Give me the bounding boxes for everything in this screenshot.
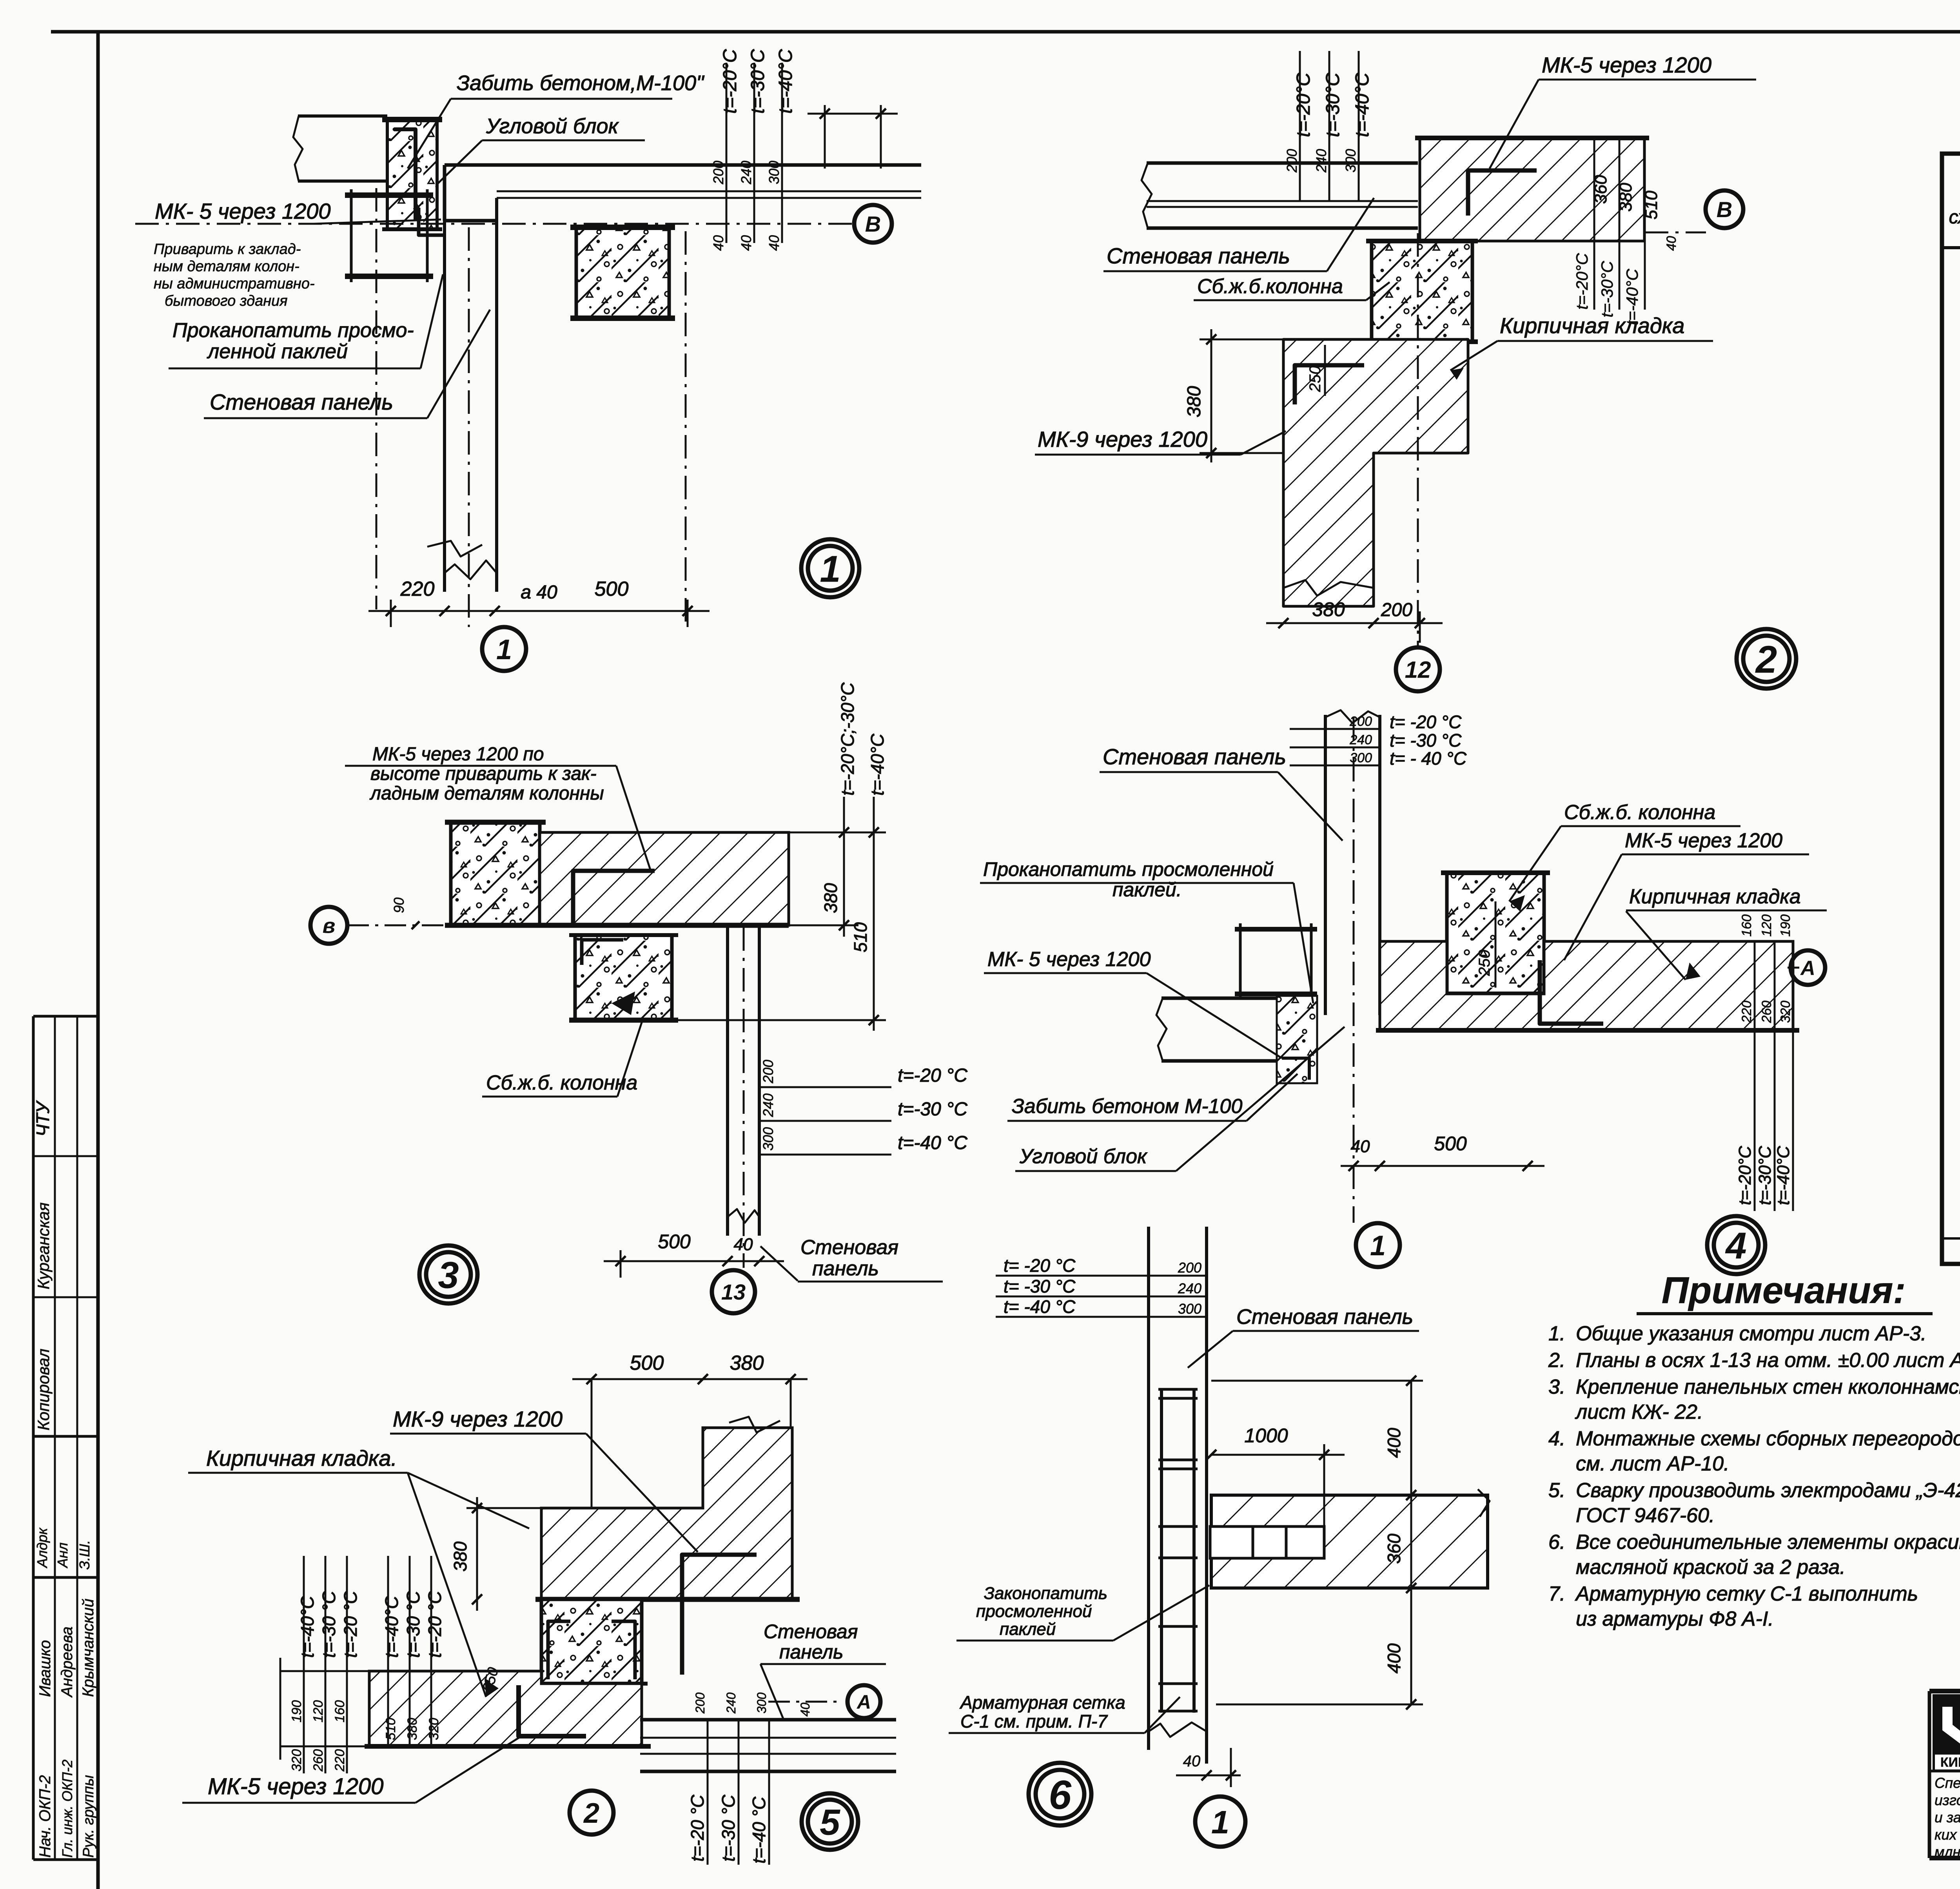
label Забить бетоном М-100 [408,71,705,169]
right rotated dims [1754,941,1756,1030]
svg-text:1: 1 [820,548,840,590]
svg-text:2.: 2. [1548,1349,1565,1372]
dims 380 510 right [843,832,845,937]
brick inner detail [1210,1526,1324,1558]
axis B centerline [135,223,854,225]
stamp column grid [33,1016,98,1860]
svg-text:С-1 см. прим. П-7: С-1 см. прим. П-7 [960,1711,1108,1731]
wall panel (hatched, horizontal) [1211,1495,1488,1588]
label Кирпичная кладка [1626,885,1827,980]
svg-text:t=-20 °C: t=-20 °C [425,1591,445,1658]
svg-text:t=-40 °C: t=-40 °C [898,1133,967,1153]
svg-text:Копировал: Копировал [34,1349,53,1430]
svg-text:200: 200 [1178,1260,1201,1276]
label Кирпичная кладка [1450,313,1713,370]
svg-text:510: 510 [850,922,871,952]
svg-text:190: 190 [289,1700,304,1722]
embedded angle MK-5 right [1540,960,1603,1024]
svg-text:паклей.: паклей. [1112,879,1182,901]
svg-text:Проканопатить просмо-: Проканопатить просмо- [172,319,414,342]
reinforcing mesh ladder [1160,1388,1163,1713]
svg-text:t=-30°C: t=-30°C [1323,73,1343,137]
svg-text:см. лист АР-10.: см. лист АР-10. [1576,1452,1730,1475]
wall panel vertical right [726,927,729,1236]
label Сб.ж.б.колонна [1194,275,1390,300]
svg-text:4: 4 [1725,1225,1746,1267]
svg-text:380: 380 [820,883,841,913]
svg-text:ны административно-: ны административно- [154,276,315,292]
svg-text:t=-40°C: t=-40°C [1774,1146,1793,1205]
sheet border frame top [51,30,1960,34]
svg-text:120: 120 [1759,914,1774,937]
label Стеновая панель bottom [760,1236,943,1282]
svg-text:Сварку производить электродам: Сварку производить электродами „Э-42" [1576,1479,1960,1502]
svg-text:t=-20 °C: t=-20 °C [898,1065,967,1086]
svg-text:лист КЖ- 22.: лист КЖ- 22. [1575,1401,1703,1423]
svg-text:320: 320 [426,1718,441,1740]
svg-text:Общие указания смотри лист АР-: Общие указания смотри лист АР-3. [1576,1322,1927,1345]
svg-text:6: 6 [1049,1772,1072,1818]
svg-text:40: 40 [710,235,726,251]
svg-text:Алдрк: Алдрк [34,1527,50,1568]
embedded angle MK-9 [1295,365,1364,404]
svg-text:3: 3 [438,1254,459,1296]
node circle 12 [1417,233,1419,647]
svg-text:t=-30°C: t=-30°C [1755,1146,1775,1205]
svg-text:МК-9 через 1200: МК-9 через 1200 [1038,427,1207,451]
svg-text:Сб.ж.б. колонна: Сб.ж.б. колонна [1564,801,1715,824]
detail number circle 2 [1737,629,1796,689]
svg-text:МК-5 через 1200: МК-5 через 1200 [1542,53,1711,77]
svg-text:Стеновая панель: Стеновая панель [1236,1305,1413,1329]
svg-text:Ивашко: Ивашко [36,1640,54,1697]
svg-text:Примечания:: Примечания: [1662,1269,1906,1311]
square block left [1235,927,1317,932]
temp dim group A [303,1556,305,1773]
svg-text:160: 160 [332,1700,347,1722]
detail node 4 [980,710,1827,1274]
wall panel horizontal right [640,1718,896,1722]
vertical panel centerline [468,227,470,627]
label Проканопатить паклей [169,274,443,368]
svg-text:7.: 7. [1548,1583,1565,1605]
svg-text:Все соединительные элементы: Все соединительные элементы окрасить [1576,1531,1960,1554]
detail ref circle 12 [1396,647,1440,691]
svg-text:и заготовок для животноводчес: и заготовок для животноводчес- [1935,1809,1960,1826]
label Стеновая панель [1100,744,1343,841]
svg-text:40: 40 [734,1235,753,1254]
svg-text:Кирпичная кладка: Кирпичная кладка [1629,885,1801,908]
svg-text:2: 2 [583,1798,599,1829]
svg-text:40: 40 [1664,236,1679,251]
svg-text:З.Ш.: З.Ш. [76,1540,93,1570]
label Стеновая панель [1188,1305,1419,1368]
svg-text:t= -30 °C: t= -30 °C [1390,730,1462,751]
svg-text:200: 200 [710,161,726,185]
dimension bottom 500 40 [604,1260,784,1262]
svg-text:Угловой блок: Угловой блок [486,114,619,138]
label Сб.ж.б. колонна right [1509,801,1740,901]
svg-text:t=-40°C: t=-40°C [297,1595,318,1658]
svg-text:1: 1 [1211,1804,1229,1840]
detail number circle 6 [1029,1763,1091,1826]
embedded angle [573,871,655,925]
svg-text:260: 260 [311,1749,326,1772]
logo Союзсельхозтехника [1933,1694,1960,1771]
lower brick band (hatched) [369,1671,642,1746]
temp labels bottom right [707,1720,709,1865]
brick masonry lower (hatched, L-shape) [1283,339,1468,606]
svg-text:t=-30°C: t=-30°C [748,49,768,114]
detail number circle 4 [1707,1216,1765,1274]
label Арматурная сетка [949,1692,1180,1733]
detail ref circle 1 [1356,1223,1400,1267]
svg-text:МК-5 через 1200: МК-5 через 1200 [1625,829,1782,852]
svg-text:Сб.ж.б.колонна: Сб.ж.б.колонна [1197,275,1343,298]
svg-text:Анл: Анл [54,1543,71,1568]
svg-text:260: 260 [1759,1001,1774,1023]
svg-text:200: 200 [693,1692,707,1714]
svg-text:90: 90 [391,897,407,913]
detail node 3 [310,682,967,1313]
svg-text:ладным деталям колонны: ладным деталям колонны [369,783,604,804]
svg-text:380: 380 [1312,598,1345,620]
svg-text:380: 380 [405,1718,420,1740]
svg-text:Угловой блок: Угловой блок [1019,1145,1148,1168]
detail node 1 [135,49,921,671]
svg-text:120: 120 [311,1700,326,1722]
svg-text:240: 240 [724,1692,738,1714]
r.c. column below (stippled) [575,935,672,1020]
svg-text:t=-20°C: t=-20°C [720,49,740,114]
svg-text:Сб.ж.б. колонна: Сб.ж.б. колонна [486,1071,637,1094]
svg-text:панель: панель [812,1257,879,1280]
svg-text:просмоленной: просмоленной [976,1602,1092,1621]
svg-text:Стеновая панель: Стеновая панель [1107,243,1290,268]
svg-text:Арматурную сетку С-1 выполн: Арматурную сетку С-1 выполнить [1575,1583,1918,1605]
r.c. column (stippled) [1372,241,1472,342]
detail ref circle 2 [570,1791,613,1835]
svg-text:t=-20°C: t=-20°C [1735,1146,1755,1205]
svg-text:40: 40 [798,1702,812,1717]
svg-text:Стеновая панель: Стеновая панель [210,390,393,414]
svg-text:Стеновая панель: Стеновая панель [1103,744,1286,769]
svg-text:Приварить к заклад-: Приварить к заклад- [154,241,301,257]
axis B dash line and circle [1645,232,1706,234]
svg-text:t=-30°C: t=-30°C [1598,261,1616,317]
svg-text:Законопатить: Законопатить [984,1584,1107,1603]
axis circle А [848,1685,880,1718]
label Стеновая панель [760,1621,886,1720]
svg-text:t=-30 °C: t=-30 °C [718,1795,739,1862]
axis circle В [854,205,892,243]
svg-text:300: 300 [755,1692,769,1713]
right side dims 360 380 510 [1593,138,1595,310]
wall panel vertical [1147,1227,1150,1750]
big embedded angle MK-5 [519,1685,586,1736]
svg-text:Арматурная сетка: Арматурная сетка [959,1692,1125,1713]
svg-text:320: 320 [1778,1001,1793,1023]
svg-text:300: 300 [766,161,782,184]
temperature labels top right [843,797,845,832]
svg-text:360: 360 [1384,1534,1404,1564]
svg-text:a 40: a 40 [521,582,557,603]
svg-text:Кирпичная кладка: Кирпичная кладка [1500,313,1684,338]
svg-text:КИЕВ: КИЕВ [1940,1755,1960,1770]
svg-text:Гл. инж. ОКП-2: Гл. инж. ОКП-2 [59,1760,75,1858]
r.c. concrete block (stippled) [541,1599,642,1684]
detail number circle 1 [801,539,859,597]
svg-text:Стеновая: Стеновая [800,1236,898,1259]
svg-text:Кирпичная кладка.: Кирпичная кладка. [206,1446,397,1470]
svg-text:40: 40 [766,235,782,251]
svg-text:Монтажные схемы сборных пере: Монтажные схемы сборных перегородок [1576,1427,1960,1450]
svg-text:МК- 5 через 1200: МК- 5 через 1200 [155,199,331,223]
svg-text:320: 320 [289,1749,304,1771]
svg-text:панель: панель [779,1641,843,1663]
corner concrete strip [1277,996,1317,1083]
svg-text:40: 40 [1183,1753,1201,1770]
svg-text:А: А [1800,957,1815,980]
embedded channel in block [394,129,416,219]
svg-text:t=-40 °C: t=-40 °C [749,1797,769,1864]
label МК-9 через 1200 [390,1407,698,1552]
dim 40 bottom [1176,1775,1241,1777]
svg-text:240: 240 [760,1093,776,1117]
svg-text:t=-40°C: t=-40°C [775,49,796,114]
dimension bottom 380 200 [1266,622,1443,624]
svg-text:510: 510 [383,1718,398,1740]
corner concrete block [387,120,437,229]
svg-text:Проканопатить просмоленной: Проканопатить просмоленной [983,858,1274,880]
wall panel horizontal (left) [298,114,387,118]
dimension bottom 40 500 [1341,1165,1544,1167]
svg-text:6.: 6. [1548,1531,1565,1554]
label Проканопатить паклей [980,858,1313,1003]
axis A circle [768,1701,843,1703]
svg-text:ЧТУ: ЧТУ [33,1100,53,1137]
axis A circle [1788,967,1799,969]
svg-text:12: 12 [1405,657,1431,683]
svg-text:220: 220 [1739,1001,1754,1023]
label Забить бетоном М-100 [1007,1074,1298,1121]
svg-text:Планы в осях 1-13 на отм. ±0.: Планы в осях 1-13 на отм. ±0.00 лист АР-… [1576,1349,1960,1372]
svg-text:t=-30 °C: t=-30 °C [403,1591,423,1658]
svg-text:t= - 40 °C: t= - 40 °C [1390,748,1467,769]
svg-text:220: 220 [400,578,435,600]
embedded angle MK-5 [1468,170,1537,216]
svg-text:ГОСТ 9467-60.: ГОСТ 9467-60. [1576,1504,1715,1527]
r.c. column (stippled) [1447,873,1544,994]
svg-text:500: 500 [630,1352,664,1374]
svg-text:Крымчанский: Крымчанский [80,1599,97,1697]
svg-text:t=-20°C;-30°C: t=-20°C;-30°C [837,682,858,796]
svg-text:Крепление панельных стен кколо: Крепление панельных стен кколоннамсм. [1576,1376,1960,1398]
dim 380 vertical [1210,329,1212,462]
break mark bottom [1283,580,1374,596]
embedded angles both sides [548,1621,570,1679]
temp dim group B [387,1556,389,1746]
svg-text:3.: 3. [1548,1376,1565,1398]
svg-text:1: 1 [1370,1230,1386,1262]
detail ref circle 13 [712,1270,755,1313]
svg-text:млн. руб. в год: млн. руб. в год [1935,1844,1960,1860]
svg-text:40: 40 [1351,1137,1370,1156]
dimension top 500 380 [572,1378,808,1380]
detail ref circle 1 [482,627,526,671]
svg-text:МК-9 через 1200: МК-9 через 1200 [393,1407,563,1431]
axis circle А [1791,950,1825,985]
axis dash line through column [685,231,687,627]
svg-text:250: 250 [1476,950,1493,976]
dimension line bottom 220 a40 500 [368,610,710,612]
detail node 5 [182,1352,896,1865]
svg-text:1000: 1000 [1244,1425,1288,1447]
svg-text:t=-40°C: t=-40°C [1352,73,1373,137]
label Законопатить паклей [956,1584,1209,1641]
svg-text:160: 160 [1739,914,1754,937]
svg-text:А: А [856,1691,871,1713]
detail ref circle 1 [1195,1797,1245,1847]
label Стеновая панель [204,310,490,418]
concrete block top left [451,822,540,925]
svg-text:300: 300 [760,1127,776,1151]
svg-text:510: 510 [1642,190,1661,219]
brick masonry (hatched big L) [541,1428,792,1599]
svg-text:300: 300 [1350,751,1372,765]
svg-text:t=-30 °C: t=-30 °C [898,1099,967,1120]
dim 380 left [476,1497,478,1611]
svg-text:250: 250 [1307,366,1324,392]
embedded angle in column [582,940,623,965]
svg-text:МК- 5 через 1200: МК- 5 через 1200 [987,948,1151,971]
detail number circle 3 [419,1245,477,1303]
svg-text:240: 240 [738,161,754,185]
svg-text:400: 400 [1384,1428,1404,1458]
svg-text:1: 1 [496,634,512,665]
svg-text:Нач. ОКП-2: Нач. ОКП-2 [36,1775,54,1858]
svg-text:t=-30 °C: t=-30 °C [319,1591,339,1658]
svg-text:t=-20°C: t=-20°C [1293,73,1314,137]
axis circle В [1706,190,1743,228]
dim 250 [1495,901,1497,988]
dim 250 [1324,345,1326,396]
axis dash line through left block [376,188,377,609]
svg-text:400: 400 [1384,1643,1404,1673]
specification table 1: Спецификация элементов [1942,26,1960,1264]
svg-text:Курганская: Курганская [34,1202,53,1289]
svg-text:паклей: паклей [1000,1620,1056,1639]
svg-text:220: 220 [332,1749,347,1772]
label МК-5 через 1200 по высоте [345,744,651,871]
svg-text:Забить бетоном,М-100": Забить бетоном,М-100" [457,71,705,95]
wall panel horizontal (right, along axis B) [445,163,921,167]
band end dim verticals [824,105,826,169]
detail node 2 [1035,51,1796,691]
brick masonry band (hatched) [1380,940,1447,943]
label МК-5 через 1200 [155,199,441,224]
notes Примечания [1548,1269,1960,1630]
svg-text:200: 200 [760,1060,776,1084]
svg-text:Рук. группы: Рук. группы [80,1775,97,1858]
precast r.c. column (hatched) [576,227,669,318]
svg-text:4.: 4. [1548,1427,1565,1450]
dim 1000 [1211,1454,1345,1456]
svg-text:В: В [865,212,881,236]
temperature rows right [759,1086,891,1088]
label Угловой блок [1015,1027,1345,1171]
svg-text:t=-40°C: t=-40°C [867,733,887,796]
temperature rows top (shared with node 4) [996,1275,1207,1277]
svg-text:190: 190 [1778,914,1793,937]
angle in strip [1282,1058,1309,1080]
svg-text:360: 360 [1591,175,1610,204]
svg-text:240: 240 [1313,149,1329,173]
svg-text:40: 40 [738,235,754,251]
svg-text:380: 380 [730,1352,764,1374]
svg-text:500: 500 [1434,1133,1467,1155]
svg-text:изготовлению монтажных узлов: изготовлению монтажных узлов [1935,1792,1960,1808]
svg-text:схемы: схемы [1949,207,1960,228]
dim 400/360/400 right [1410,1381,1412,1704]
svg-text:ких ферм с программой 2.0: ких ферм с программой 2.0 [1935,1827,1960,1843]
wall panel vertical [443,221,446,592]
label Кирпичная кладка [188,1446,529,1528]
temperature gap dimension lines [726,63,728,243]
svg-text:300: 300 [1343,149,1359,172]
joint angle [419,208,443,235]
svg-text:13: 13 [721,1280,746,1304]
label МК-9 через 1200 [1035,427,1286,455]
svg-text:t= -30 °C: t= -30 °C [1004,1276,1076,1296]
label МК-5 через 1200 right [1564,829,1809,960]
svg-text:500: 500 [595,578,629,600]
svg-text:380: 380 [450,1541,470,1572]
brick masonry band (hatched) [540,832,789,925]
svg-text:масляной краской за 2 раза.: масляной краской за 2 раза. [1576,1556,1846,1579]
svg-text:2: 2 [1755,638,1777,681]
svg-text:ленной паклей: ленной паклей [207,340,348,363]
label Угловой блок [437,114,645,184]
label МК-5 через 1200 left [984,948,1282,1058]
svg-text:бытового здания: бытового здания [165,293,288,309]
svg-text:t= -20 °C: t= -20 °C [1390,712,1462,732]
svg-text:300: 300 [1178,1301,1201,1317]
brick masonry upper (hatched) [1420,138,1644,241]
axis circle в [310,907,347,944]
svg-text:Специализированная мастерская: Специализированная мастерская по [1935,1775,1960,1791]
detail node 6 [949,1227,1490,1847]
temperature rotated labels bottom right [1754,1030,1756,1211]
svg-text:1.: 1. [1548,1322,1565,1345]
wall panel horizontal left [1161,997,1277,1000]
svg-text:t=-40°C: t=-40°C [381,1595,402,1658]
title block [1929,1691,1960,1860]
svg-text:в: в [323,914,336,937]
svg-text:В: В [1717,197,1732,222]
detail number circle 5 [802,1793,858,1850]
wall panel horizontal left [1147,161,1418,165]
svg-text:t=-20 °C: t=-20 °C [687,1795,708,1862]
svg-text:200: 200 [1381,600,1412,620]
svg-text:200: 200 [1284,149,1300,173]
svg-text:500: 500 [658,1231,691,1253]
label Сб.ж.б. колонна [482,1019,643,1097]
label МК-5 через 1200 [1490,53,1756,169]
sheet border frame left [96,32,100,1889]
svg-text:200: 200 [1349,714,1372,729]
svg-text:Стеновая: Стеновая [764,1621,858,1642]
